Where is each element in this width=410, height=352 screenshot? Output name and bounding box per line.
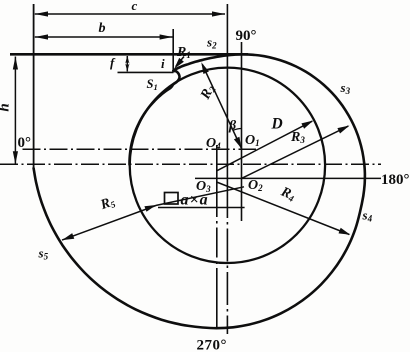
wire: underline of a x a label [158,207,245,209]
wire: horizontal line through O3,O2 to 180 deg label [195,177,381,179]
svg-text:β: β [228,119,237,134]
svg-text:90°: 90° [236,28,257,44]
svg-text:s4: s4 [362,208,373,224]
svg-text:180°: 180° [381,172,410,188]
beta angle arc at O1 [233,129,241,131]
svg-text:a×a: a×a [181,192,209,209]
svg-text:R3: R3 [290,130,305,145]
wire: horizontal center line 0-180 (dash-dot) [0,163,381,165]
wire: tongue shelf line f [118,71,174,73]
square a x a symbol [165,193,179,205]
svg-text:h: h [0,103,13,111]
svg-text:O4: O4 [206,136,221,151]
svg-text:R2: R2 [198,82,218,102]
inner circle D (impeller base circle) [130,68,325,263]
node: vertical axis 90-270 through circle center [226,4,228,185]
svg-text:R1: R1 [176,45,191,60]
leader R1 to tongue tip [176,57,184,67]
svg-text:R5: R5 [98,194,117,213]
dimension c line [35,13,225,15]
wire: vertical through O1,O2 [241,42,243,221]
svg-text:S1: S1 [147,77,158,92]
wire: outlet top wall [10,53,248,56]
dimension f arrows [126,56,128,71]
wire: horizontal line through O4,O1 (dash-dot) [23,148,257,150]
svg-text:b: b [99,21,106,36]
svg-text:O2: O2 [248,178,263,193]
svg-text:O1: O1 [245,133,260,148]
radius line R3 from O2 to outer arc [242,126,349,178]
dimension b line [35,36,173,38]
svg-text:R4: R4 [278,184,298,204]
svg-text:s5: s5 [38,246,49,262]
svg-text:c: c [132,0,138,13]
svg-text:s3: s3 [340,80,351,96]
radius line D from center to circle [217,121,312,171]
dimension h line [14,57,16,165]
wire: extension line from b to tongue [172,29,174,71]
svg-text:270°: 270° [197,338,228,352]
svg-text:s2: s2 [206,35,217,51]
wire: vertical through arc centers below O3 [216,145,218,328]
wire: outlet left wall / dimension extension [33,4,35,168]
svg-text:i: i [161,56,165,71]
svg-text:D: D [271,116,283,133]
radius line R4 from O2 to outer arc [217,182,350,235]
radius line R5 from O3 to outer arc [144,205,156,212]
radius line R2 from O1 to arc s2 [202,65,241,149]
wire: volute outer spiral contour s1-s5 [34,54,365,328]
svg-text:f: f [110,55,116,70]
svg-text:0°: 0° [18,135,32,151]
